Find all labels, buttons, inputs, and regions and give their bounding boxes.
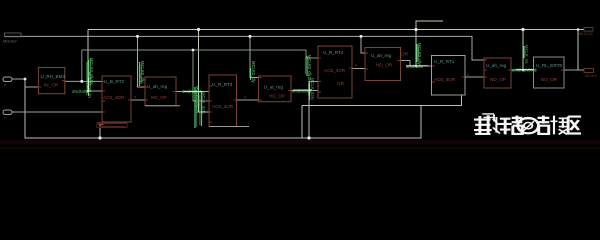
svg-text:U_R_RT1: U_R_RT1 — [434, 59, 455, 64]
svg-text:HD_OR: HD_OR — [376, 63, 393, 68]
svg-text:U_R_RT3: U_R_RT3 — [212, 82, 233, 87]
svg-text:U_RH_BM3: U_RH_BM3 — [41, 74, 66, 79]
svg-text:d: d — [134, 95, 136, 99]
svg-text:dNdNdN: dNdNdN — [72, 89, 88, 94]
svg-text:IN_OR: IN_OR — [44, 83, 59, 88]
svg-text:AO2_4OR: AO2_4OR — [103, 95, 125, 100]
svg-text:d: d — [467, 73, 469, 77]
svg-text:OR: OR — [337, 81, 345, 86]
svg-text:BO_OR: BO_OR — [541, 77, 558, 82]
svg-text:ND_OP: ND_OP — [490, 77, 506, 82]
svg-text:MCLK0: MCLK0 — [585, 74, 597, 78]
svg-text:AO2_4OR: AO2_4OR — [434, 77, 456, 82]
svg-text:U_at_reg: U_at_reg — [264, 85, 283, 90]
svg-text:MCLK_n5: MCLK_n5 — [524, 45, 529, 64]
svg-text:HD_OP: HD_OP — [269, 94, 285, 99]
svg-text:MCLK0_dly: MCLK0_dly — [251, 61, 256, 84]
svg-text:MCLK0_d1dN: MCLK0_d1dN — [87, 72, 92, 98]
svg-text:MLCLK0: MLCLK0 — [579, 32, 593, 36]
svg-text:ND_OP: ND_OP — [151, 95, 167, 100]
svg-text:OR: OR — [401, 52, 409, 57]
svg-text:AO2_4OR: AO2_4OR — [212, 104, 234, 109]
svg-text:AO2_4OR: AO2_4OR — [324, 68, 346, 73]
svg-text:d: d — [244, 96, 246, 100]
svg-text:U_ah_reg: U_ah_reg — [147, 84, 168, 89]
svg-text:n: n — [4, 116, 6, 120]
svg-text:MCLKLY: MCLKLY — [3, 39, 17, 44]
svg-text:U_ah_reg: U_ah_reg — [371, 53, 392, 58]
svg-text:aMdNdM: aMdNdM — [406, 64, 423, 69]
svg-text:U_R_RT4: U_R_RT4 — [323, 50, 344, 55]
svg-text:d: d — [4, 83, 6, 87]
svg-text:U_ah_reg: U_ah_reg — [486, 63, 507, 68]
svg-text:U_RL_ERTE: U_RL_ERTE — [536, 63, 562, 68]
svg-text:d: d — [355, 64, 357, 68]
svg-text:U_B_RT2: U_B_RT2 — [104, 79, 125, 84]
